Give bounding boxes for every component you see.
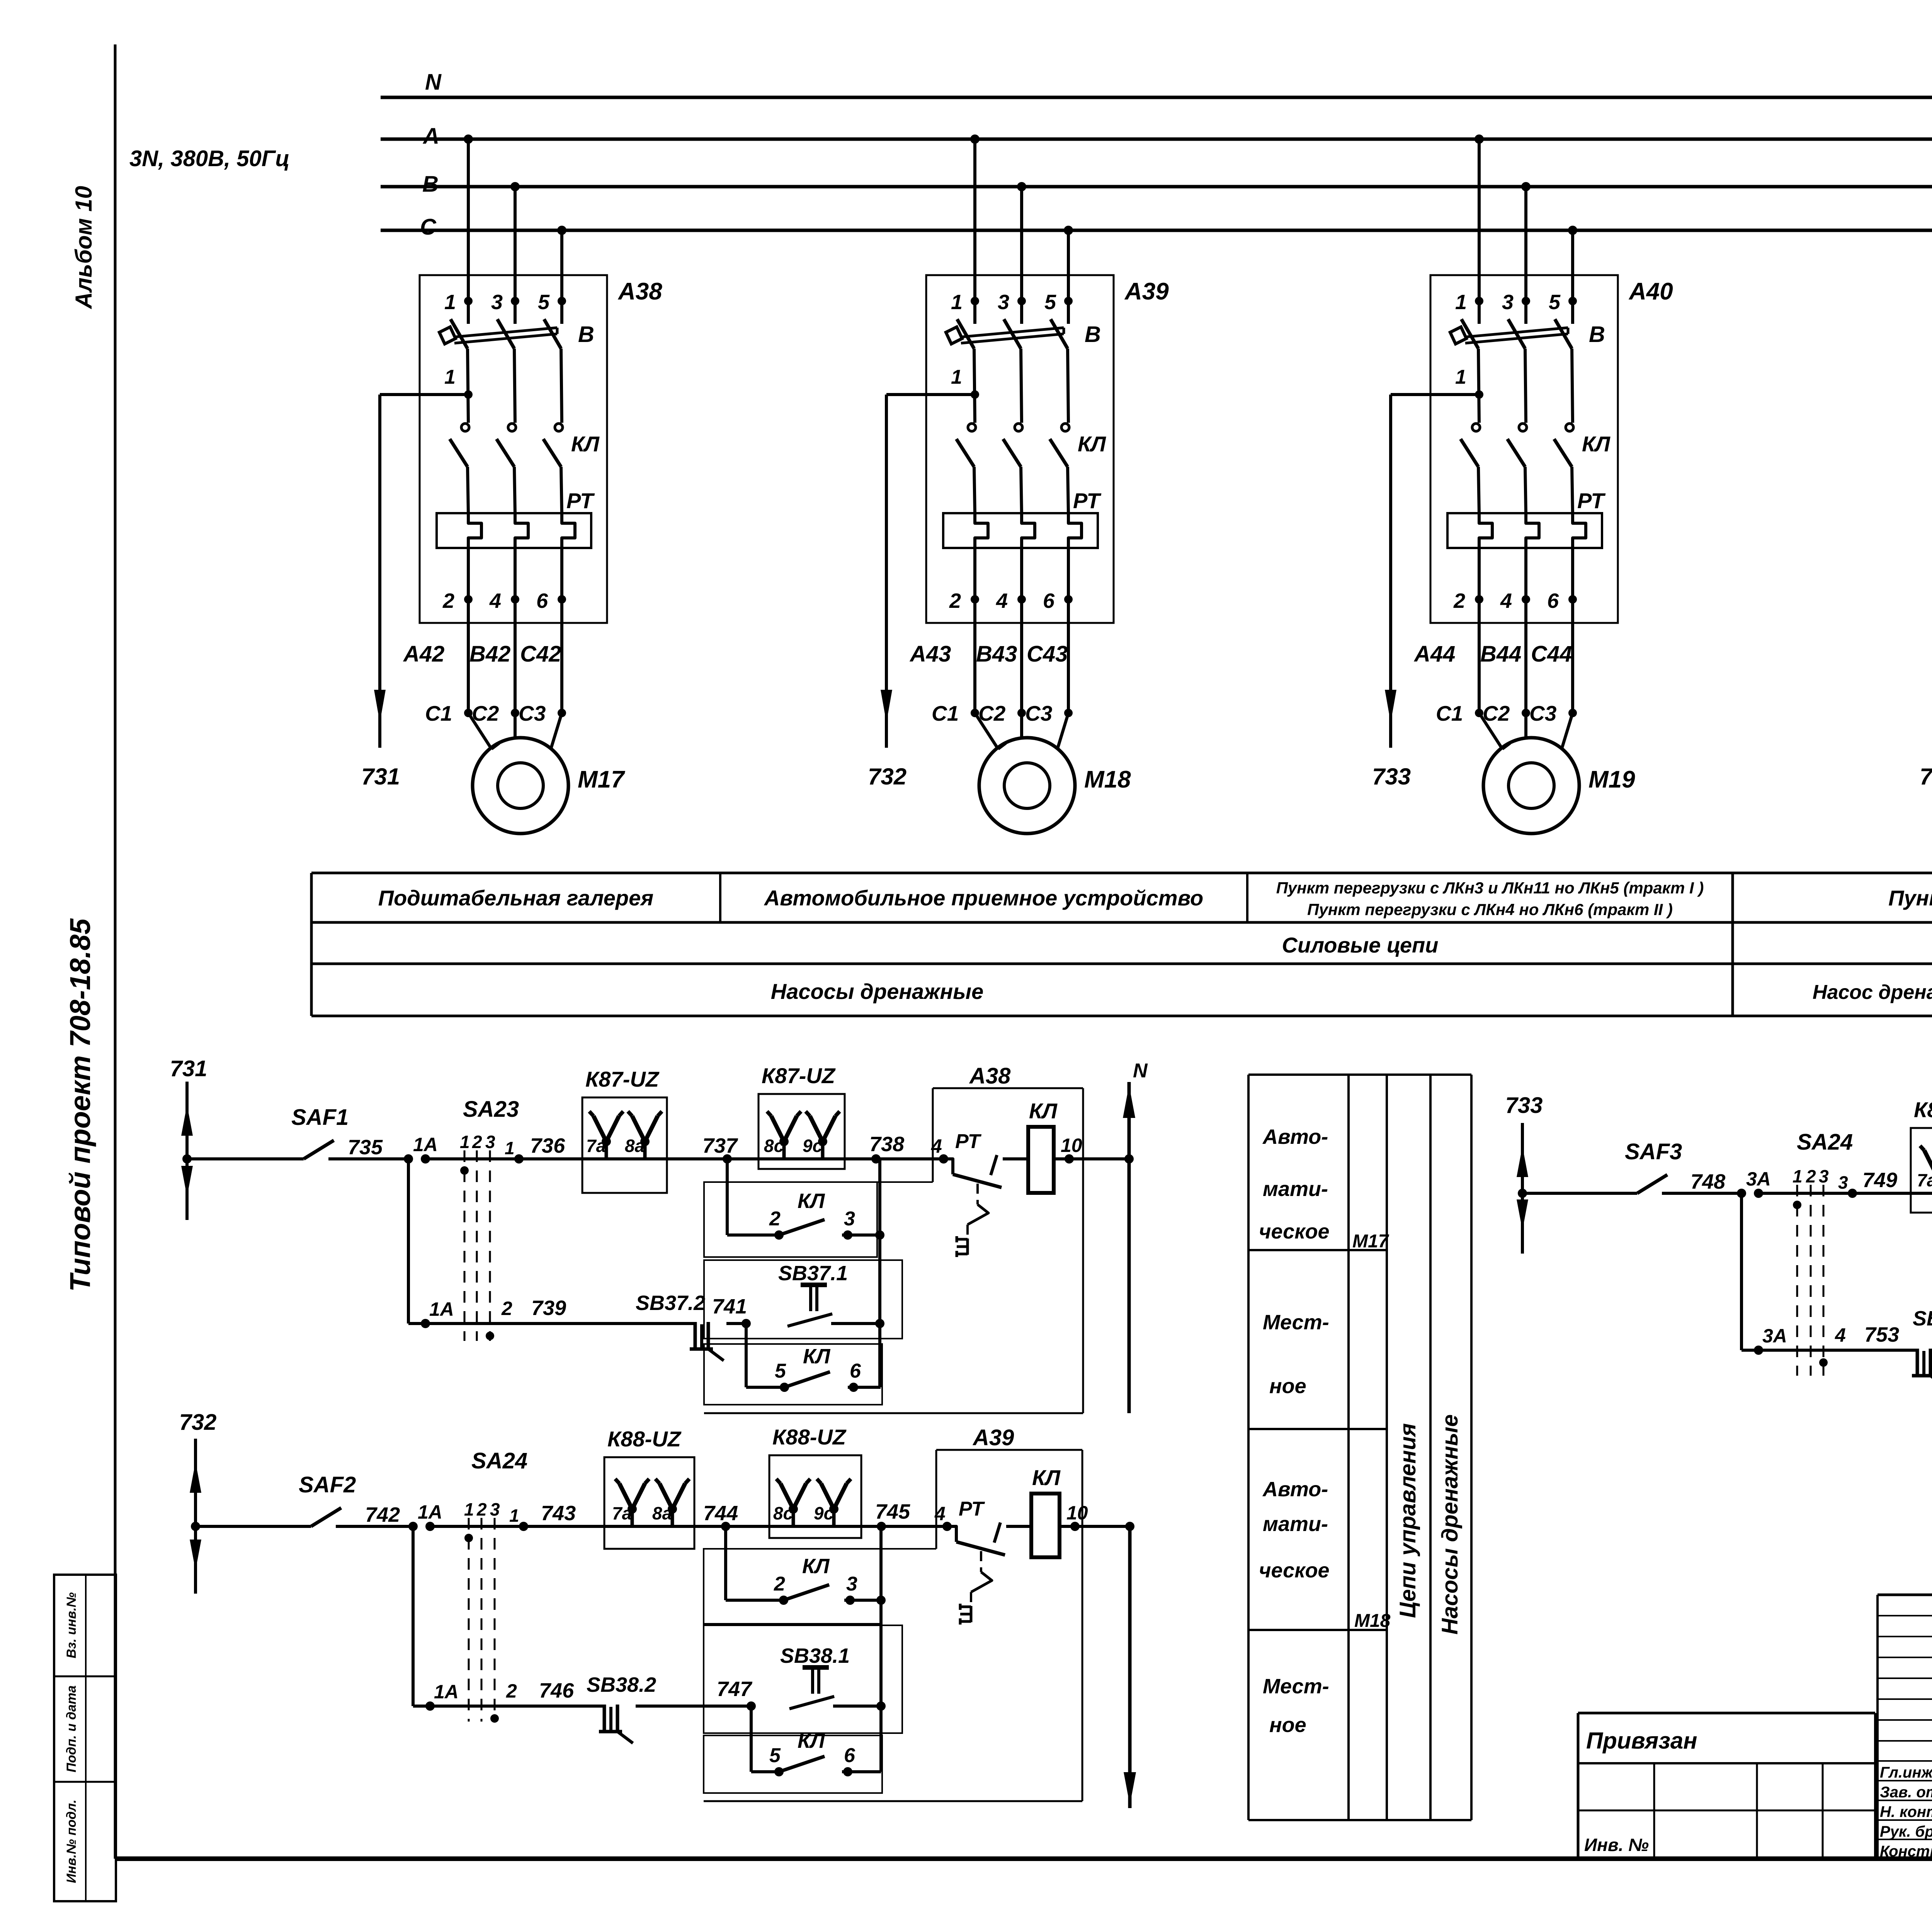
svg-text:2: 2 <box>476 1499 487 1519</box>
auxiliary contact КЛ 5-6 <box>780 1383 789 1392</box>
svg-text:В: В <box>1085 322 1101 347</box>
svg-text:2: 2 <box>506 1680 517 1702</box>
unit boundary box 1 <box>704 1182 877 1257</box>
svg-text:3: 3 <box>844 1208 855 1230</box>
svg-text:SB38.2: SB38.2 <box>587 1673 656 1696</box>
motor terminals С1 С2 С3 of М19 <box>1475 709 1483 717</box>
auxiliary contact КЛ 5-6 <box>774 1767 784 1776</box>
svg-text:А39: А39 <box>972 1425 1014 1450</box>
svg-text:Насос дренажный (для исполнени: Насос дренажный (для исполнения I ) <box>1813 981 1932 1004</box>
terminal 6 of А40 <box>1571 563 1574 599</box>
link box1 top to enclosure edge <box>877 1181 933 1183</box>
motor terminals С1 С2 С3 of М18 <box>971 709 979 717</box>
margin stamp table <box>54 1575 116 1901</box>
heater element at 1333 <box>515 513 528 563</box>
svg-text:1: 1 <box>951 291 963 314</box>
circuit breaker В of А40 <box>1461 319 1478 349</box>
svg-text:738: 738 <box>869 1133 904 1156</box>
heater element at 2523 <box>975 513 988 563</box>
central function table <box>1247 1075 1250 1820</box>
svg-text:Насосы дренажные: Насосы дренажные <box>1437 1414 1463 1635</box>
svg-text:А38: А38 <box>969 1063 1011 1089</box>
enclosure box А38 <box>420 275 607 623</box>
svg-text:741: 741 <box>712 1295 747 1318</box>
terminal 6 of А39 <box>1067 563 1070 599</box>
wire pole 2765 to motor <box>1067 599 1070 713</box>
wire 738 node <box>845 1157 942 1160</box>
svg-text:5: 5 <box>775 1360 786 1382</box>
svg-text:С42: С42 <box>520 641 561 667</box>
svg-text:М17: М17 <box>1352 1231 1389 1252</box>
svg-text:А40: А40 <box>1628 278 1673 305</box>
motor М19 <box>1479 713 1502 749</box>
svg-text:Н. контр.: Н. контр. <box>1880 1803 1932 1820</box>
svg-text:SB39.2: SB39.2 <box>1913 1307 1932 1330</box>
svg-text:1: 1 <box>951 366 962 388</box>
connector block К88-UZ second <box>769 1455 861 1538</box>
svg-text:М17: М17 <box>578 766 625 793</box>
svg-text:5: 5 <box>1549 291 1561 314</box>
svg-text:В43: В43 <box>976 641 1017 667</box>
thermal relay РТ box of А39 <box>943 513 1098 548</box>
heater element at 3828 <box>1479 513 1492 563</box>
vertical link node to buttons <box>879 1526 883 1772</box>
terminal 6 of А38 <box>560 563 563 599</box>
connector block К88-UZ first <box>604 1457 694 1549</box>
svg-text:3N, 380В, 50Гц: 3N, 380В, 50Гц <box>129 146 290 171</box>
connector contact 8с <box>792 1509 795 1526</box>
svg-text:мати-: мати- <box>1263 1512 1328 1536</box>
svg-text:С44: С44 <box>1531 641 1572 667</box>
connector contact 8а <box>643 1142 647 1159</box>
svg-text:8с: 8с <box>764 1136 784 1156</box>
svg-text:РТ: РТ <box>566 488 595 513</box>
svg-text:3: 3 <box>1819 1166 1829 1186</box>
contactor coil КЛ <box>1027 1157 1028 1160</box>
svg-text:733: 733 <box>1505 1093 1543 1118</box>
heater element at 4070 <box>1573 513 1586 563</box>
lower control row <box>407 1159 410 1324</box>
svg-text:735: 735 <box>348 1136 383 1159</box>
svg-text:4: 4 <box>1835 1324 1846 1346</box>
svg-text:N: N <box>1133 1060 1148 1082</box>
svg-text:Цепи управления: Цепи управления <box>1395 1423 1420 1618</box>
heater element at 2765 <box>1068 513 1082 563</box>
svg-text:С1: С1 <box>1436 701 1463 725</box>
svg-text:С3: С3 <box>1025 701 1052 725</box>
unit boundary box 2 <box>704 1260 902 1339</box>
svg-text:С1: С1 <box>425 701 452 725</box>
svg-text:Рук. бриг.: Рук. бриг. <box>1880 1823 1932 1840</box>
auxiliary contact КЛ 2-3 <box>779 1596 788 1605</box>
neutral N line <box>1128 1082 1131 1413</box>
svg-text:Авто-: Авто- <box>1262 1478 1328 1501</box>
connector contact 7а <box>605 1142 608 1159</box>
svg-text:2: 2 <box>1453 589 1465 612</box>
contactor КЛ contacts of А39 <box>968 424 976 431</box>
svg-text:КЛ: КЛ <box>803 1345 831 1368</box>
svg-text:SAF1: SAF1 <box>291 1105 349 1130</box>
svg-text:РТ: РТ <box>959 1498 985 1520</box>
bus line А <box>381 138 1932 141</box>
svg-text:Силовые цепи: Силовые цепи <box>1282 933 1439 957</box>
svg-text:4: 4 <box>996 589 1008 612</box>
svg-text:КЛ: КЛ <box>802 1555 830 1578</box>
svg-text:1: 1 <box>505 1138 515 1158</box>
svg-text:SA24: SA24 <box>1797 1130 1853 1155</box>
svg-text:А39: А39 <box>1124 278 1169 305</box>
svg-text:4: 4 <box>934 1503 946 1524</box>
svg-text:Пункт перегрузки с ЛКн3 и ЛКн1: Пункт перегрузки с ЛКн3 и ЛКн11 но ЛКн5 … <box>1276 879 1704 897</box>
connector contact 8с <box>782 1142 786 1159</box>
svg-text:7а: 7а <box>612 1503 632 1523</box>
svg-text:1: 1 <box>464 1499 474 1519</box>
wire tap from bus to pole at x=2765 <box>1064 226 1073 235</box>
svg-text:Инв.№ подл.: Инв.№ подл. <box>64 1800 79 1883</box>
wire tap from bus to pole at x=4070 <box>1568 226 1577 235</box>
svg-text:6: 6 <box>850 1360 861 1382</box>
svg-text:737: 737 <box>702 1134 738 1157</box>
wire tap from bus to pole at x=1212 <box>464 134 473 144</box>
svg-text:А38: А38 <box>617 278 662 305</box>
svg-text:С2: С2 <box>978 701 1006 725</box>
svg-text:К88-UZ: К88-UZ <box>772 1425 847 1449</box>
svg-text:2: 2 <box>472 1132 482 1152</box>
svg-text:С3: С3 <box>1529 701 1556 725</box>
svg-text:Альбом 10: Альбом 10 <box>71 186 97 310</box>
svg-text:5: 5 <box>1044 291 1056 314</box>
unit boundary box 3 <box>704 1344 882 1405</box>
wire pole 3949 to motor <box>1524 599 1527 713</box>
wire 736 <box>425 1157 582 1160</box>
svg-text:Зав. отд.: Зав. отд. <box>1880 1784 1932 1801</box>
heater element at 1212 <box>468 513 481 563</box>
svg-text:Подштабельная галерея: Подштабельная галерея <box>378 886 653 910</box>
svg-text:3: 3 <box>846 1573 857 1595</box>
svg-text:733: 733 <box>1372 764 1411 789</box>
connector block К87-UZ first <box>582 1097 667 1193</box>
svg-text:1: 1 <box>1793 1166 1803 1186</box>
svg-text:М18: М18 <box>1354 1611 1391 1631</box>
neutral N line <box>1128 1526 1132 1808</box>
svg-text:К88-UZ: К88-UZ <box>607 1427 682 1451</box>
svg-text:N: N <box>425 70 442 95</box>
svg-text:В: В <box>1589 322 1605 347</box>
svg-text:739: 739 <box>531 1296 566 1320</box>
svg-text:Констр.: Констр. <box>1880 1843 1932 1860</box>
svg-text:Типовой проект 708-18.85: Типовой проект 708-18.85 <box>64 918 96 1292</box>
wire pole 2644 to motor <box>1020 599 1023 713</box>
switch SAF2 <box>196 1525 311 1528</box>
svg-text:7а: 7а <box>586 1136 606 1156</box>
thermal relay РТ contact <box>947 1526 956 1542</box>
svg-text:В: В <box>578 322 594 347</box>
terminal 3 of А38 <box>511 297 519 305</box>
branch to auxiliary contact 5-6 <box>750 1706 753 1772</box>
starter enclosure А39 in control circuit <box>936 1449 1082 1451</box>
svg-text:1: 1 <box>1455 291 1467 314</box>
wire tap from bus to pole at x=3949 <box>1521 182 1531 191</box>
svg-text:2: 2 <box>1806 1166 1816 1186</box>
wire 737 node <box>667 1157 759 1160</box>
wire 744 node <box>694 1525 769 1528</box>
wire tap from bus to pole at x=2523 <box>970 134 980 144</box>
svg-text:4: 4 <box>931 1135 942 1157</box>
terminal 5 of А38 <box>558 297 566 305</box>
svg-text:ное: ное <box>1269 1375 1306 1398</box>
node 1 tap of А39 to wire 732 <box>971 390 979 399</box>
svg-text:3: 3 <box>998 291 1009 314</box>
thermal relay РТ contact <box>944 1159 953 1174</box>
svg-text:Мест-: Мест- <box>1263 1675 1329 1698</box>
node 4 <box>939 1154 948 1164</box>
wire pole 3828 to motor <box>1478 599 1481 713</box>
svg-text:743: 743 <box>541 1502 576 1525</box>
svg-text:734: 734 <box>1920 764 1932 789</box>
svg-text:746: 746 <box>539 1679 574 1702</box>
svg-text:3: 3 <box>491 291 503 314</box>
terminal 2 of А39 <box>973 563 976 599</box>
svg-text:ческое: ческое <box>1259 1220 1330 1243</box>
svg-text:1: 1 <box>1455 366 1466 388</box>
wire tap from bus to pole at x=1454 <box>557 226 566 235</box>
svg-text:749: 749 <box>1862 1169 1897 1192</box>
wire tap from bus to pole at x=1333 <box>510 182 520 191</box>
link box1 top to enclosure edge <box>881 1548 936 1550</box>
motor terminals С1 С2 С3 of М17 <box>464 709 473 717</box>
drawing frame bottom border <box>115 1856 1932 1861</box>
signature table <box>1878 1594 1932 1596</box>
heater element at 2644 <box>1022 513 1035 563</box>
wire tap from bus to pole at x=3828 <box>1475 134 1484 144</box>
svg-text:3: 3 <box>490 1499 500 1519</box>
svg-text:С43: С43 <box>1027 641 1068 667</box>
svg-text:К87-UZ: К87-UZ <box>762 1063 836 1088</box>
bus line В <box>381 185 1932 189</box>
svg-text:РТ: РТ <box>955 1130 982 1153</box>
svg-text:745: 745 <box>875 1500 910 1523</box>
svg-text:SA23: SA23 <box>463 1097 519 1122</box>
svg-text:SAF3: SAF3 <box>1625 1139 1682 1164</box>
svg-text:В44: В44 <box>1480 641 1521 667</box>
svg-text:8а: 8а <box>652 1503 672 1523</box>
svg-text:Авто-: Авто- <box>1262 1125 1328 1148</box>
svg-text:С: С <box>420 214 437 240</box>
terminal 5 of А40 <box>1568 297 1577 305</box>
terminal 3 of А40 <box>1522 297 1530 305</box>
svg-text:В42: В42 <box>469 641 510 667</box>
terminal 2 of А40 <box>1478 563 1481 599</box>
svg-text:1А: 1А <box>413 1134 438 1155</box>
svg-text:КЛ: КЛ <box>1582 432 1611 456</box>
heater element at 1454 <box>562 513 575 563</box>
svg-text:КЛ: КЛ <box>571 432 600 456</box>
svg-text:мати-: мати- <box>1263 1177 1328 1201</box>
svg-text:10: 10 <box>1066 1502 1088 1524</box>
heater element at 3949 <box>1526 513 1539 563</box>
svg-text:М18: М18 <box>1084 766 1131 793</box>
privyazan table <box>1578 1712 1875 1715</box>
trip linkage <box>976 1184 979 1204</box>
svg-text:732: 732 <box>179 1410 217 1435</box>
svg-text:744: 744 <box>703 1502 738 1525</box>
branch to auxiliary contact 2-3 <box>726 1159 729 1235</box>
terminal 4 of А38 <box>514 563 517 599</box>
switch SAF1 <box>187 1157 304 1160</box>
thermal relay РТ box of А40 <box>1447 513 1602 548</box>
svg-text:SB37.1: SB37.1 <box>778 1262 848 1285</box>
svg-text:ческое: ческое <box>1259 1559 1330 1582</box>
svg-text:1А: 1А <box>418 1501 442 1523</box>
svg-text:1: 1 <box>444 366 456 388</box>
lower control row <box>1740 1193 1743 1350</box>
svg-text:С2: С2 <box>1483 701 1510 725</box>
svg-text:SB37.2: SB37.2 <box>636 1291 705 1315</box>
connector contact 8а <box>671 1509 674 1526</box>
svg-text:731: 731 <box>361 764 400 789</box>
bus line С <box>381 229 1932 232</box>
svg-text:С2: С2 <box>472 701 499 725</box>
svg-text:3А: 3А <box>1762 1325 1787 1347</box>
branch to auxiliary contact 2-3 <box>724 1526 727 1600</box>
contactor КЛ contacts of А40 <box>1472 424 1480 431</box>
svg-text:2: 2 <box>442 589 454 612</box>
svg-text:В: В <box>422 172 439 197</box>
terminal 4 of А39 <box>1020 563 1023 599</box>
terminal 3 of А39 <box>1017 297 1026 305</box>
svg-text:SAF2: SAF2 <box>299 1472 356 1497</box>
terminal 1 of А40 <box>1475 297 1483 305</box>
svg-text:3А: 3А <box>1746 1168 1771 1190</box>
svg-text:9с: 9с <box>814 1503 833 1523</box>
svg-text:SA24: SA24 <box>471 1448 527 1473</box>
motor М18 <box>975 713 998 749</box>
node 4 <box>942 1522 952 1531</box>
svg-text:2: 2 <box>949 589 961 612</box>
svg-text:А44: А44 <box>1413 641 1455 667</box>
enclosure box А40 <box>1430 275 1618 623</box>
unit boundary box 3 <box>704 1735 882 1793</box>
svg-text:2: 2 <box>501 1298 512 1319</box>
vertical link node to buttons <box>878 1159 881 1387</box>
svg-text:8а: 8а <box>625 1136 645 1156</box>
switch SAF3 <box>1522 1192 1637 1195</box>
svg-text:2: 2 <box>774 1573 785 1595</box>
drawing frame left border <box>114 44 117 1859</box>
wire pole 1212 to motor <box>467 599 470 713</box>
svg-text:1А: 1А <box>434 1681 459 1703</box>
enclosure box А39 <box>926 275 1114 623</box>
bus line N <box>381 96 1932 99</box>
node 1 tap of А40 to wire 733 <box>1475 390 1483 399</box>
svg-text:3: 3 <box>1502 291 1514 314</box>
svg-text:736: 736 <box>530 1134 565 1157</box>
svg-text:4: 4 <box>1500 589 1512 612</box>
svg-text:1: 1 <box>509 1506 519 1526</box>
svg-text:М19: М19 <box>1588 766 1635 793</box>
svg-text:С1: С1 <box>932 701 959 725</box>
svg-text:Гл.инж. пр: Гл.инж. пр <box>1880 1764 1932 1781</box>
svg-text:КЛ: КЛ <box>1029 1099 1058 1123</box>
svg-text:732: 732 <box>868 764 906 789</box>
svg-text:ное: ное <box>1269 1713 1306 1737</box>
svg-text:Привязан: Привязан <box>1586 1728 1697 1754</box>
svg-text:742: 742 <box>365 1503 400 1526</box>
svg-text:Насосы дренажные: Насосы дренажные <box>771 979 983 1004</box>
wire pole 2523 to motor <box>973 599 976 713</box>
unit boundary box 1 <box>704 1549 881 1624</box>
location table <box>311 872 1932 874</box>
svg-text:731: 731 <box>170 1056 207 1081</box>
svg-text:9с: 9с <box>803 1136 822 1156</box>
svg-text:Пункт перегрузки н2: Пункт перегрузки н2 <box>1888 886 1932 910</box>
wire pole 1454 to motor <box>560 599 563 713</box>
connector block К89-UZ first <box>1911 1128 1932 1213</box>
svg-text:А: А <box>422 124 439 149</box>
svg-text:1: 1 <box>444 291 456 314</box>
svg-text:Подп. и дата: Подп. и дата <box>64 1685 79 1772</box>
terminal 5 of А39 <box>1064 297 1073 305</box>
wire pole 4070 to motor <box>1571 599 1574 713</box>
svg-text:РТ: РТ <box>1073 488 1102 513</box>
circuit breaker В of А38 <box>451 319 468 349</box>
auxiliary contact КЛ 2-3 <box>774 1230 784 1240</box>
wire pole 1333 to motor <box>514 599 517 713</box>
lower control row <box>412 1526 415 1706</box>
svg-text:6: 6 <box>844 1744 855 1767</box>
branch to auxiliary contact 5-6 <box>745 1324 748 1387</box>
svg-text:2: 2 <box>769 1208 781 1230</box>
unit boundary box 2 <box>704 1625 902 1733</box>
svg-text:7а: 7а <box>1917 1170 1932 1190</box>
svg-text:К89-UZ: К89-UZ <box>1914 1097 1932 1122</box>
wire tap from bus to pole at x=2644 <box>1017 182 1026 191</box>
svg-text:3: 3 <box>485 1132 495 1152</box>
svg-text:748: 748 <box>1690 1170 1725 1193</box>
wire 749 <box>1759 1192 1911 1195</box>
thermal relay РТ box of А38 <box>437 513 591 548</box>
svg-text:4: 4 <box>489 589 501 612</box>
circuit breaker В of А39 <box>957 319 974 349</box>
trip linkage <box>980 1551 982 1572</box>
svg-text:Мест-: Мест- <box>1263 1311 1329 1334</box>
terminal 1 of А39 <box>971 297 979 305</box>
svg-text:5: 5 <box>769 1744 781 1767</box>
svg-text:РТ: РТ <box>1577 488 1606 513</box>
starter enclosure А38 in control circuit <box>933 1087 1083 1089</box>
svg-text:КЛ: КЛ <box>1032 1465 1061 1490</box>
node 1 tap of А38 to wire 731 <box>464 390 473 399</box>
svg-text:Автомобильное приемное устройс: Автомобильное приемное устройство <box>764 886 1203 910</box>
contactor coil КЛ <box>1030 1525 1031 1528</box>
svg-text:10: 10 <box>1061 1135 1082 1156</box>
terminal 1 of А38 <box>464 297 473 305</box>
svg-text:6: 6 <box>536 589 548 612</box>
svg-text:747: 747 <box>717 1677 753 1701</box>
svg-text:3: 3 <box>1838 1172 1848 1193</box>
svg-text:8с: 8с <box>773 1503 793 1523</box>
svg-text:6: 6 <box>1547 589 1559 612</box>
svg-text:5: 5 <box>538 291 550 314</box>
connector contact 9с <box>832 1509 836 1526</box>
connector contact 9с <box>821 1142 825 1159</box>
svg-text:Вз. инв.№: Вз. инв.№ <box>64 1592 79 1658</box>
motor М17 <box>468 713 492 749</box>
svg-text:КЛ: КЛ <box>1078 432 1106 456</box>
terminal 2 of А38 <box>467 563 470 599</box>
terminal 4 of А40 <box>1524 563 1527 599</box>
svg-text:753: 753 <box>1864 1323 1899 1346</box>
